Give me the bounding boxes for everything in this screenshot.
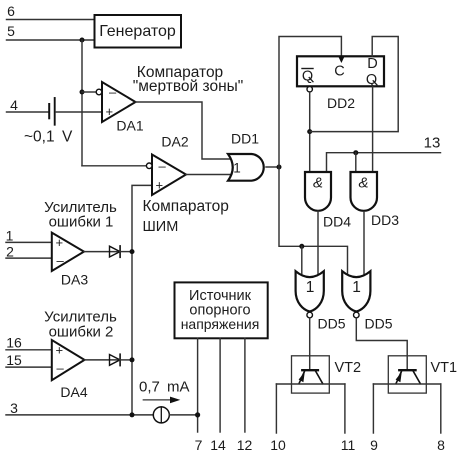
wire DD4 output to left NOR <box>317 211 319 277</box>
NOR gate DD5 right <box>342 271 370 311</box>
svg-text:ШИМ: ШИМ <box>143 219 179 235</box>
wire Q-bar feedback to D input <box>310 37 399 132</box>
wire pin 13 <box>327 153 441 172</box>
wire pin 16 <box>6 349 52 351</box>
svg-text:1: 1 <box>352 279 361 296</box>
wire to pin 8 <box>440 384 442 433</box>
NOR gate DD5 left <box>296 271 324 311</box>
wire current source to pin7 line <box>169 414 197 416</box>
wire ref to pin 14 <box>219 338 221 432</box>
wire 13 branch to DD3 <box>355 153 357 173</box>
svg-text:11: 11 <box>341 437 356 453</box>
svg-text:+: + <box>56 235 64 250</box>
OR gate DD1 <box>228 154 264 181</box>
op-amp DA1 dead zone comparator <box>96 82 135 122</box>
svg-text:0,7 mA: 0,7 mA <box>139 379 190 396</box>
node junction Q-bar feedback <box>307 129 312 134</box>
svg-text:8: 8 <box>437 437 445 453</box>
wire pin5 to generator <box>7 39 95 41</box>
svg-text:DA3: DA3 <box>61 272 88 288</box>
svg-text:Генератор: Генератор <box>99 23 176 40</box>
wire DA2 output to DD1 <box>186 174 231 176</box>
svg-text:3: 3 <box>10 400 18 416</box>
svg-text:9: 9 <box>370 437 378 453</box>
svg-text:ошибки 2: ошибки 2 <box>49 324 114 341</box>
wire VT1 horizontal <box>373 383 440 385</box>
svg-text:Q: Q <box>366 72 377 88</box>
wire DD3 output to right NOR <box>363 212 365 277</box>
wire right NOR to VT1 base <box>356 318 407 369</box>
node junction DA3 <box>130 249 135 254</box>
transistor VT1 <box>388 356 426 393</box>
wire DA3 output <box>84 251 120 253</box>
svg-text:напряжения: напряжения <box>181 316 260 332</box>
wire diode to node <box>120 359 132 361</box>
wire left NOR to VT2 base <box>309 318 311 369</box>
svg-text:DD5: DD5 <box>317 316 345 332</box>
svg-text:10: 10 <box>270 437 286 453</box>
svg-text:2: 2 <box>6 244 14 260</box>
svg-text:DD5: DD5 <box>364 316 392 332</box>
wire pin 1 <box>6 241 52 243</box>
wire ref to pin 12 <box>244 338 246 432</box>
wire to DA2 inverting input <box>82 165 146 167</box>
svg-text:+: + <box>106 104 114 119</box>
svg-text:D: D <box>367 56 377 72</box>
svg-text:Q: Q <box>302 69 313 85</box>
wire pin 15 <box>6 366 52 368</box>
svg-text:1: 1 <box>306 279 315 296</box>
wire to DA1 inverting input <box>82 91 96 93</box>
wire DA2 plus input from node line <box>132 185 152 415</box>
svg-text:–: – <box>57 361 65 376</box>
diode VD2 <box>110 354 121 365</box>
wire to pin 10 <box>275 384 277 433</box>
wire pin 3 <box>6 414 153 416</box>
right NOR output bubble <box>354 312 360 318</box>
flip-flop DD2 <box>297 56 384 86</box>
svg-text:4: 4 <box>10 97 18 113</box>
AND gate DD3 <box>351 172 378 211</box>
node junction pin5 <box>80 38 85 43</box>
node junction 13 to DD3 <box>353 150 358 155</box>
svg-text:+: + <box>156 178 164 193</box>
svg-text:DD3: DD3 <box>371 212 399 228</box>
svg-text:DA2: DA2 <box>161 134 188 150</box>
svg-text:15: 15 <box>6 352 22 368</box>
node junction DD1 output <box>277 165 282 170</box>
svg-text:5: 5 <box>7 23 15 39</box>
diode VD1 <box>110 246 121 257</box>
generator block <box>95 15 182 48</box>
op-amp DA3 error amplifier 1 <box>52 233 84 271</box>
node junction pin3 <box>130 412 135 417</box>
svg-text:14: 14 <box>210 437 226 453</box>
wire pin6 to generator <box>7 19 95 21</box>
node junction DA4 <box>130 357 135 362</box>
svg-text:DD1: DD1 <box>231 131 259 147</box>
svg-text:7: 7 <box>195 437 203 453</box>
wire ref to pin 7 <box>197 338 199 432</box>
svg-text:"мертвой зоны": "мертвой зоны" <box>133 78 244 95</box>
svg-text:–: – <box>159 158 167 173</box>
wire Q output down to DD3 <box>372 87 374 174</box>
svg-text:DD2: DD2 <box>327 95 355 111</box>
svg-text:&: & <box>313 175 323 192</box>
wire DA1 output to DD1 <box>136 102 232 159</box>
wire DD1 out up to flip-flop clock <box>279 37 341 168</box>
node junction pin7 line <box>195 412 200 417</box>
svg-text:DA1: DA1 <box>116 118 143 134</box>
svg-text:1: 1 <box>233 161 241 176</box>
wire vertical from pin5 node down <box>81 40 83 166</box>
transistor VT2 <box>292 356 330 393</box>
svg-text:VT2: VT2 <box>335 360 362 376</box>
op-amp DA4 error amplifier 2 <box>52 340 85 380</box>
svg-text:DD4: DD4 <box>323 214 351 230</box>
current source <box>153 407 169 423</box>
wire DD1 signal down to NOR gates <box>279 167 348 277</box>
svg-text:Компаратор: Компаратор <box>143 198 229 215</box>
node junction DA1 branch <box>80 90 85 95</box>
wire VT2 emitter-collector horizontal <box>276 383 345 385</box>
svg-text:–: – <box>109 85 117 100</box>
svg-text:ошибки 1: ошибки 1 <box>49 214 114 231</box>
clock arrowhead <box>338 57 344 64</box>
node junction left NOR feed <box>299 244 304 249</box>
svg-text:1: 1 <box>6 228 14 244</box>
wire DD1 output <box>266 166 279 168</box>
wire branch to left NOR <box>301 246 303 277</box>
wire to pin 11 <box>344 384 346 433</box>
left NOR output bubble <box>307 312 313 318</box>
svg-text:6: 6 <box>7 3 15 19</box>
svg-text:–: – <box>57 253 65 268</box>
wire Q-bar down to DD4 <box>309 92 311 172</box>
svg-text:C: C <box>334 64 344 80</box>
battery source plates <box>48 104 50 118</box>
svg-text:~0,1 V: ~0,1 V <box>24 129 73 146</box>
svg-text:+: + <box>56 343 64 358</box>
svg-text:VT1: VT1 <box>431 360 458 376</box>
wire to pin 9 <box>372 384 374 433</box>
wire pin 2 <box>6 257 52 259</box>
svg-text:16: 16 <box>6 335 22 351</box>
svg-text:&: & <box>358 175 368 192</box>
wire pin4 to battery <box>7 111 49 113</box>
svg-text:12: 12 <box>237 437 253 453</box>
svg-text:DA4: DA4 <box>60 384 87 400</box>
svg-text:13: 13 <box>424 135 441 152</box>
Q-bar output bubble <box>307 87 312 92</box>
reference voltage source block <box>175 282 268 338</box>
current arrow <box>143 399 171 401</box>
wire DA4 output <box>85 359 121 361</box>
op-amp DA2 PWM comparator <box>146 155 186 196</box>
wire battery to DA1 + input <box>56 111 102 113</box>
AND gate DD4 <box>305 172 331 211</box>
wire diode to node <box>120 251 132 253</box>
